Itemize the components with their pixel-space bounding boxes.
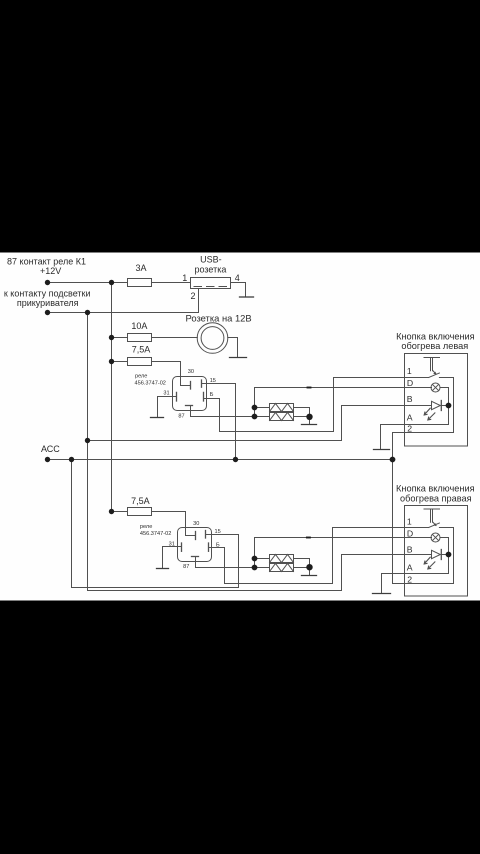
fuse F4 7,5A: [128, 508, 152, 516]
button SB2 pin 2 wire: [393, 583, 454, 585]
svg-text:4: 4: [235, 273, 240, 283]
svg-text:А: А: [407, 413, 413, 423]
fuse F3 7,5A: [128, 358, 152, 366]
svg-text:30: 30: [193, 521, 199, 527]
wire relay K2 pin 87 to heaters: [196, 557, 270, 568]
svg-text:7,5А: 7,5А: [132, 345, 151, 355]
wire LED rail to pin A and ground: [381, 406, 449, 450]
relay K1 pin 30 blade: [190, 382, 192, 390]
wire 12V socket to ground: [228, 338, 238, 358]
LED VD2 light arrows: [424, 557, 430, 564]
wire relay K2 pin 31 to ground: [163, 547, 182, 569]
wire backlight vertical trunk: [87, 313, 89, 591]
wire relay K2 pin B to button SB2 pin 1: [209, 528, 405, 584]
button SB1 switch blade: [429, 373, 440, 378]
wire upper heater left stub: [255, 407, 270, 409]
svg-text:D: D: [407, 528, 413, 538]
USB socket X1 body: [191, 278, 231, 289]
button SB1 lamp HL1: [431, 383, 440, 392]
svg-text:1: 1: [182, 273, 187, 283]
svg-text:+12V: +12V: [40, 266, 61, 276]
ground GND6: [157, 568, 169, 570]
node dot heater 2 feed upper: [252, 556, 258, 562]
ground GND1: [240, 296, 254, 298]
node dot heater feed upper: [252, 405, 258, 411]
wire fuse F1 to USB pin 1: [152, 282, 191, 284]
wire heater node to button pin D: [255, 388, 432, 417]
ground GND4: [302, 424, 317, 426]
node dot LED rail SB2: [446, 552, 452, 558]
wire +12V vertical trunk: [111, 283, 113, 512]
node dot backlight left: [45, 310, 50, 315]
node dot ACC branch: [69, 457, 74, 462]
wire backlight feed horizontal: [48, 312, 199, 314]
heater element R1: [270, 404, 294, 412]
wire USB pin 2 drop: [198, 289, 200, 313]
node dot +12V trunk: [109, 280, 114, 285]
wire relay K1 pin 15 to ACC: [202, 384, 236, 460]
svg-text:В: В: [407, 394, 413, 404]
node dot fuse F4 tap: [109, 509, 114, 514]
svg-text:30: 30: [188, 369, 194, 375]
svg-text:87 контакт реле К1: 87 контакт реле К1: [7, 256, 86, 266]
wire +12V to fuse F4: [112, 511, 128, 513]
node dot heater ground: [306, 414, 312, 420]
node dot ACC pin2 riser: [390, 457, 396, 463]
svg-text:USB-: USB-: [200, 255, 222, 265]
svg-text:Кнопка включения: Кнопка включения: [396, 331, 475, 341]
svg-text:1: 1: [407, 366, 412, 376]
ground GND5: [374, 449, 390, 451]
svg-text:В: В: [407, 544, 413, 554]
button SB1 pin B wire: [405, 405, 432, 407]
wire pin2 riser to ACC and bottom button: [392, 433, 394, 584]
wire to fuse F2: [112, 337, 128, 339]
button SB2 LED VD2: [432, 550, 441, 558]
wire heaters right to ground: [294, 408, 310, 425]
wire lamp to rail: [440, 388, 449, 406]
wire backlight bottom run to button SB2 pin B: [88, 555, 432, 591]
button SB2 lamp HL2: [431, 533, 440, 542]
wire ACC branch to relay K2 pin 15: [72, 460, 239, 588]
svg-text:реле: реле: [135, 373, 147, 379]
svg-text:реле: реле: [140, 524, 152, 530]
fuse F2 10A: [128, 334, 152, 342]
button SB1 actuator arrowhead: [433, 372, 436, 375]
button SB1 LED VD1: [432, 401, 441, 409]
relay K2 body: [178, 528, 212, 562]
ground GND2: [230, 357, 247, 359]
button SB1 switch link to rail: [439, 378, 453, 433]
12V socket XS1 outer: [197, 323, 228, 354]
svg-text:Кнопка включения: Кнопка включения: [396, 484, 475, 494]
svg-text:прикуривателя: прикуривателя: [17, 298, 79, 308]
wire heaters 2 right to ground: [294, 559, 310, 576]
node dot fuse F2 tap: [109, 335, 114, 340]
svg-text:2: 2: [190, 291, 195, 301]
wire backlight to button SB1 pin B: [88, 406, 405, 441]
relay K2 pin 15 blade: [205, 531, 207, 539]
relay K2 pin 31 blade: [181, 543, 183, 551]
relay K2 pin 87 blade: [192, 556, 199, 558]
wire fuse F4 to relay K2 pin 30: [152, 512, 196, 536]
relay K1 pin 87 blade: [186, 405, 193, 407]
wire relay K1 pin 31 to ground: [158, 397, 177, 418]
button SB1 pin 1 wire: [405, 377, 429, 379]
node dot heater 2 feed lower: [252, 565, 258, 571]
USB socket contact dashes: [194, 286, 228, 288]
svg-text:АСС: АСС: [41, 444, 60, 454]
heater element R4: [270, 564, 294, 572]
relay K1 pin 15 blade: [201, 380, 203, 387]
wire to fuse F3: [112, 361, 128, 363]
relay K1 pin 31 blade: [176, 392, 178, 401]
ground GND8: [373, 593, 391, 595]
svg-text:D: D: [407, 378, 413, 388]
svg-text:3А: 3А: [135, 263, 146, 273]
svg-text:87: 87: [183, 564, 189, 570]
arrow mark on D2 wire: [307, 537, 310, 539]
ACC wire: [48, 459, 393, 461]
svg-text:15: 15: [215, 529, 221, 535]
svg-text:15: 15: [210, 378, 216, 384]
wire USB pin 4 to ground: [231, 283, 246, 297]
relay K1 pin B blade: [203, 392, 205, 401]
relay K1 body: [173, 377, 207, 411]
button SB1 body: [405, 354, 468, 447]
wire lamp 2 to rail: [440, 538, 449, 555]
node dot ACC left: [45, 457, 50, 462]
svg-text:10А: 10А: [131, 321, 147, 331]
svg-text:Б: Б: [216, 542, 220, 548]
node dot ACC pin15 riser: [233, 457, 238, 462]
node dot heater 2 ground: [306, 564, 312, 570]
wire heater node to button SB2 pin D: [255, 538, 432, 568]
svg-text:Розетка на 12В: Розетка на 12В: [186, 313, 252, 324]
ground GND7: [302, 575, 317, 577]
button SB2 switch link to rail: [439, 528, 453, 584]
ground GND3: [151, 417, 164, 419]
wire LED 2 rail to pin A and ground: [382, 555, 449, 594]
heater element R2: [270, 413, 294, 421]
wire fuse F2 to 12V socket: [152, 337, 198, 339]
relay K2 pin B blade: [208, 543, 210, 551]
relay K2 pin 30 blade: [195, 532, 197, 540]
LED VD1 light arrows: [424, 408, 430, 415]
node dot backlight branch: [85, 438, 90, 443]
svg-text:456.3747-02: 456.3747-02: [135, 381, 166, 387]
wire relay K1 pin B to button pin 1: [204, 378, 405, 432]
heater element R3: [270, 555, 294, 563]
node dot heater feed lower: [252, 414, 258, 420]
svg-text:обогрева левая: обогрева левая: [401, 341, 468, 351]
svg-text:Б: Б: [210, 392, 214, 398]
button SB2 actuator arrowhead: [433, 523, 436, 526]
button SB2 body: [405, 506, 468, 597]
svg-text:31: 31: [169, 542, 175, 548]
wire +12V horizontal: [48, 282, 128, 284]
node dot LED rail SB1: [446, 403, 452, 409]
button SB2 actuator: [424, 509, 440, 526]
wire fuse F3 to relay K1 pin 30: [152, 362, 191, 386]
node dot +12V left: [45, 280, 50, 285]
schematic white panel: [0, 253, 480, 601]
node dot backlight trunk: [85, 310, 90, 315]
svg-text:обогрева правая: обогрева правая: [400, 493, 472, 503]
wire relay K1 pin 87 to heaters: [191, 406, 270, 417]
svg-text:7,5А: 7,5А: [131, 496, 150, 506]
svg-text:31: 31: [163, 390, 169, 396]
button SB1 pin 2 wire: [393, 432, 454, 434]
svg-text:розетка: розетка: [194, 265, 226, 275]
svg-text:1: 1: [407, 516, 412, 526]
fuse F1 3A: [128, 279, 152, 287]
button SB2 switch blade: [429, 523, 440, 528]
svg-text:к контакту подсветки: к контакту подсветки: [4, 288, 91, 298]
svg-text:87: 87: [178, 413, 184, 419]
svg-text:А: А: [407, 563, 413, 573]
node dot fuse F3 tap: [109, 359, 114, 364]
svg-text:2: 2: [407, 574, 412, 584]
arrow mark on D wire: [308, 387, 311, 389]
svg-text:2: 2: [407, 423, 412, 433]
svg-text:456.3747-02: 456.3747-02: [140, 531, 171, 537]
wire upper heater 2 left stub: [255, 558, 270, 560]
button SB1 actuator: [424, 358, 440, 375]
button SB2 pin 1 wire: [405, 527, 429, 529]
12V socket XS1 inner: [201, 327, 224, 350]
